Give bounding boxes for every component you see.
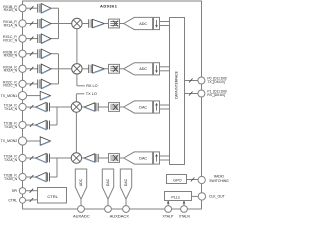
bus slash CTRL bbox=[30, 198, 34, 202]
LNA RX1A bbox=[36, 19, 39, 28]
node TX1 PA bus bbox=[56, 107, 58, 125]
block PLLs bbox=[165, 192, 192, 201]
block AUX DAC bbox=[120, 169, 131, 199]
bus RX2 to data interface bbox=[160, 66, 169, 68]
wire RX2 mixer to amp bbox=[82, 68, 88, 70]
wire TX2A output row bbox=[26, 157, 36, 159]
svg-text:PLLs: PLLs bbox=[171, 196, 180, 200]
bus slash RX2A bbox=[30, 67, 34, 71]
PA TX2A bbox=[36, 153, 46, 162]
wire TX2 filter to DAC bbox=[120, 157, 124, 159]
wire TX1 amp to filter bbox=[99, 106, 109, 108]
wire TX_MON1 input bbox=[27, 95, 41, 97]
svg-text:DAC: DAC bbox=[124, 178, 128, 186]
filter RX1 LPF bbox=[109, 19, 120, 28]
svg-text:AD9361: AD9361 bbox=[100, 4, 118, 9]
interpolator TX1 bbox=[154, 101, 160, 113]
pin TX2B_P/TX2B_N bbox=[19, 173, 26, 180]
wire TX1A output row bbox=[26, 106, 36, 108]
buffer TX_MON2 bbox=[40, 137, 50, 145]
filter RX2 LPF bbox=[109, 64, 120, 73]
wire TX2 amp to filter bbox=[99, 157, 109, 159]
wire RX1C input row bbox=[26, 38, 37, 40]
PA TX1B bbox=[36, 120, 46, 129]
bus slash GPO bbox=[191, 178, 195, 182]
svg-text:XTALP: XTALP bbox=[162, 214, 173, 218]
svg-text:RX2A_N: RX2A_N bbox=[4, 69, 18, 73]
svg-text:RX LO: RX LO bbox=[86, 84, 97, 88]
wire RX LO mixer link bbox=[76, 29, 78, 64]
LNA RX2C bbox=[36, 80, 39, 89]
bus slash RX1C bbox=[30, 37, 34, 41]
amp TX1 baseband bbox=[84, 103, 95, 111]
svg-text:SPI: SPI bbox=[12, 189, 18, 193]
wire TX2 mixer to amp bbox=[82, 157, 85, 159]
pin AUX DAC bbox=[123, 206, 130, 213]
pin RX2B_P/RX2B_N bbox=[19, 50, 26, 57]
svg-text:CLK_OUT: CLK_OUT bbox=[209, 195, 225, 199]
pin SPI bbox=[19, 188, 25, 194]
svg-text:RX1A_N: RX1A_N bbox=[4, 23, 18, 27]
svg-text:DAC: DAC bbox=[106, 178, 110, 186]
node RX2 LNA output bus bbox=[58, 54, 60, 84]
wire TX2 mixer to bus bbox=[57, 157, 72, 159]
wire TX LO stub bbox=[76, 93, 84, 95]
svg-text:RX_[D5:D0]: RX_[D5:D0] bbox=[207, 93, 225, 97]
filter TX1 LPF bbox=[109, 103, 120, 112]
chip outline AD9361 bbox=[23, 1, 202, 209]
wire TX1 filter to DAC bbox=[120, 106, 124, 108]
DAC TX1 bbox=[124, 101, 153, 113]
pin TX_MON2 bbox=[18, 137, 26, 145]
PA TX2B bbox=[36, 172, 46, 181]
wire TX1B output row bbox=[26, 124, 36, 126]
pin RX2A_P/RX2A_N bbox=[19, 65, 26, 72]
wire TX1 mixer to bus bbox=[57, 106, 72, 108]
wire RX2 mixer input bbox=[59, 68, 72, 70]
wire TX2B output row bbox=[26, 176, 36, 178]
svg-text:ADC: ADC bbox=[139, 67, 147, 71]
svg-text:RX2B_N: RX2B_N bbox=[4, 54, 18, 58]
pin CTRL bbox=[20, 197, 26, 203]
node RX1 LNA output bus bbox=[58, 8, 60, 38]
pin P0 bbox=[198, 77, 205, 84]
bus slash RX1A bbox=[30, 22, 34, 26]
pin XTALP bbox=[165, 206, 172, 213]
pin TX1B_P/TX1B_N bbox=[19, 121, 26, 128]
mixer RX1 bbox=[72, 18, 82, 28]
bus slash TX2A bbox=[30, 156, 34, 160]
wire RX2 filter to ADC bbox=[120, 68, 124, 70]
LNA RX1B bbox=[36, 4, 39, 13]
svg-text:AUXDACX: AUXDACX bbox=[110, 213, 130, 218]
wire P0 port bbox=[185, 80, 198, 82]
bus slash TX1A bbox=[30, 105, 34, 109]
node TX2 PA bus bbox=[56, 158, 58, 177]
wire AUX DAC to pin bbox=[107, 199, 109, 206]
bus slash RX1B bbox=[30, 6, 34, 10]
bus TX2 to data interface bbox=[160, 155, 169, 157]
bus slash P1 bbox=[189, 92, 193, 96]
wire AUX DAC to pin bbox=[125, 199, 127, 206]
svg-text:TX_MON1: TX_MON1 bbox=[1, 94, 18, 98]
decimator RX1 bbox=[154, 17, 160, 29]
svg-text:ADC: ADC bbox=[139, 22, 147, 26]
svg-text:TX_[D5:D0]: TX_[D5:D0] bbox=[207, 80, 224, 84]
svg-text:AUXADC: AUXADC bbox=[73, 213, 90, 218]
svg-text:DAC: DAC bbox=[139, 156, 147, 160]
bus slash SPI bbox=[30, 189, 34, 193]
svg-text:TX2B_N: TX2B_N bbox=[4, 177, 18, 181]
pin RX2C_P/RX2C_N bbox=[19, 80, 26, 87]
wire RX2B input row bbox=[26, 53, 37, 55]
block DATA INTERFACE bbox=[170, 18, 185, 165]
LNA RX1C bbox=[36, 34, 39, 43]
svg-text:GPO: GPO bbox=[173, 178, 181, 182]
pin XTALN bbox=[181, 206, 188, 213]
svg-text:TX_MON2: TX_MON2 bbox=[1, 139, 18, 143]
svg-text:TX1B_N: TX1B_N bbox=[4, 125, 18, 129]
wire RX2C input row bbox=[26, 83, 37, 85]
block GPO bbox=[167, 175, 187, 184]
amp RX1 baseband bbox=[87, 19, 90, 27]
amp RX2 baseband bbox=[87, 65, 90, 73]
pin RX1C_P/RX1C_N bbox=[19, 35, 26, 42]
wire RX1 filter to ADC bbox=[120, 23, 124, 25]
pin AUX ADC bbox=[78, 206, 85, 213]
svg-text:CTRL: CTRL bbox=[8, 198, 17, 202]
svg-text:TX LO: TX LO bbox=[86, 92, 97, 96]
wire XTALP bbox=[167, 201, 169, 206]
wire P1 port bbox=[185, 93, 198, 95]
pin AUX DAC bbox=[105, 206, 112, 213]
PA TX1A bbox=[36, 102, 46, 111]
pin TX_MON1 bbox=[18, 92, 26, 100]
LNA RX2A bbox=[36, 64, 39, 73]
interpolator TX2 bbox=[154, 152, 160, 164]
mixer TX2 bbox=[71, 153, 81, 163]
wire RX2A input row bbox=[26, 68, 37, 70]
wire RX1 mixer to amp bbox=[82, 23, 88, 25]
svg-text:RX1B_N: RX1B_N bbox=[4, 8, 18, 12]
wire SPI bbox=[26, 190, 38, 192]
svg-text:RX1C_N: RX1C_N bbox=[3, 38, 17, 42]
pin RX1A_P/RX1A_N bbox=[19, 20, 26, 27]
amp TX2 baseband bbox=[84, 154, 95, 162]
bus slash TX1B bbox=[30, 123, 34, 127]
svg-text:DATA INTERFACE: DATA INTERFACE bbox=[174, 70, 178, 98]
pin RADIO SWITCHING bbox=[198, 176, 205, 183]
wire GPO to radio switching bbox=[186, 179, 198, 181]
wire AUX ADC to pin bbox=[80, 199, 82, 206]
pin TX1A_P/TX1A_N bbox=[19, 103, 26, 110]
svg-text:SWITCHING: SWITCHING bbox=[209, 179, 229, 183]
wire RX1 mixer input bbox=[59, 23, 72, 25]
svg-text:CTRL: CTRL bbox=[47, 194, 58, 199]
buffer TX_MON1 bbox=[40, 91, 50, 99]
DAC TX2 bbox=[124, 152, 153, 164]
wire RX2 amp to filter bbox=[104, 68, 108, 70]
svg-text:TX2A_N: TX2A_N bbox=[4, 158, 18, 162]
wire RX1 amp to filter bbox=[104, 23, 108, 25]
block AUX DAC bbox=[102, 169, 113, 199]
svg-text:RX2C_N: RX2C_N bbox=[3, 84, 17, 88]
wire TX LO mixer link bbox=[75, 112, 77, 153]
ADC RX2 bbox=[124, 63, 153, 75]
block AUX ADC bbox=[75, 169, 86, 199]
bus TX1 to data interface bbox=[160, 104, 169, 106]
LNA RX2B bbox=[36, 49, 39, 58]
block CTRL bbox=[38, 188, 67, 204]
wire TX_MON2 input bbox=[27, 140, 41, 142]
bus slash P0 bbox=[189, 79, 193, 83]
pin TX2A_P/TX2A_N bbox=[19, 154, 26, 161]
wire RX LO stub bbox=[76, 74, 78, 86]
mixer RX2 bbox=[72, 64, 82, 74]
pin RX1B_P/RX1B_N bbox=[19, 5, 26, 12]
bus slash RX2B bbox=[30, 52, 34, 56]
svg-text:TX1A_N: TX1A_N bbox=[4, 107, 18, 111]
wire TX1 mixer to amp bbox=[82, 106, 85, 108]
svg-text:XTALN: XTALN bbox=[179, 214, 190, 218]
pin CLK_OUT bbox=[198, 193, 205, 200]
decimator RX2 bbox=[154, 63, 160, 75]
pin P1 bbox=[198, 90, 205, 97]
filter TX2 LPF bbox=[109, 154, 120, 163]
wire RX1A input row bbox=[26, 23, 37, 25]
ADC RX1 bbox=[124, 17, 153, 29]
wire XTALN bbox=[183, 201, 185, 206]
bus slash TX2B bbox=[30, 175, 34, 179]
bus RX1 to data interface bbox=[160, 21, 169, 23]
bus slash RX2C bbox=[30, 82, 34, 86]
svg-text:ADC: ADC bbox=[79, 178, 83, 186]
wire PLLs to CLK_OUT bbox=[192, 195, 199, 197]
wire RX1B input row bbox=[26, 7, 37, 9]
wire CTRL bbox=[26, 199, 38, 201]
mixer TX1 bbox=[71, 102, 81, 112]
svg-text:DAC: DAC bbox=[139, 105, 147, 109]
